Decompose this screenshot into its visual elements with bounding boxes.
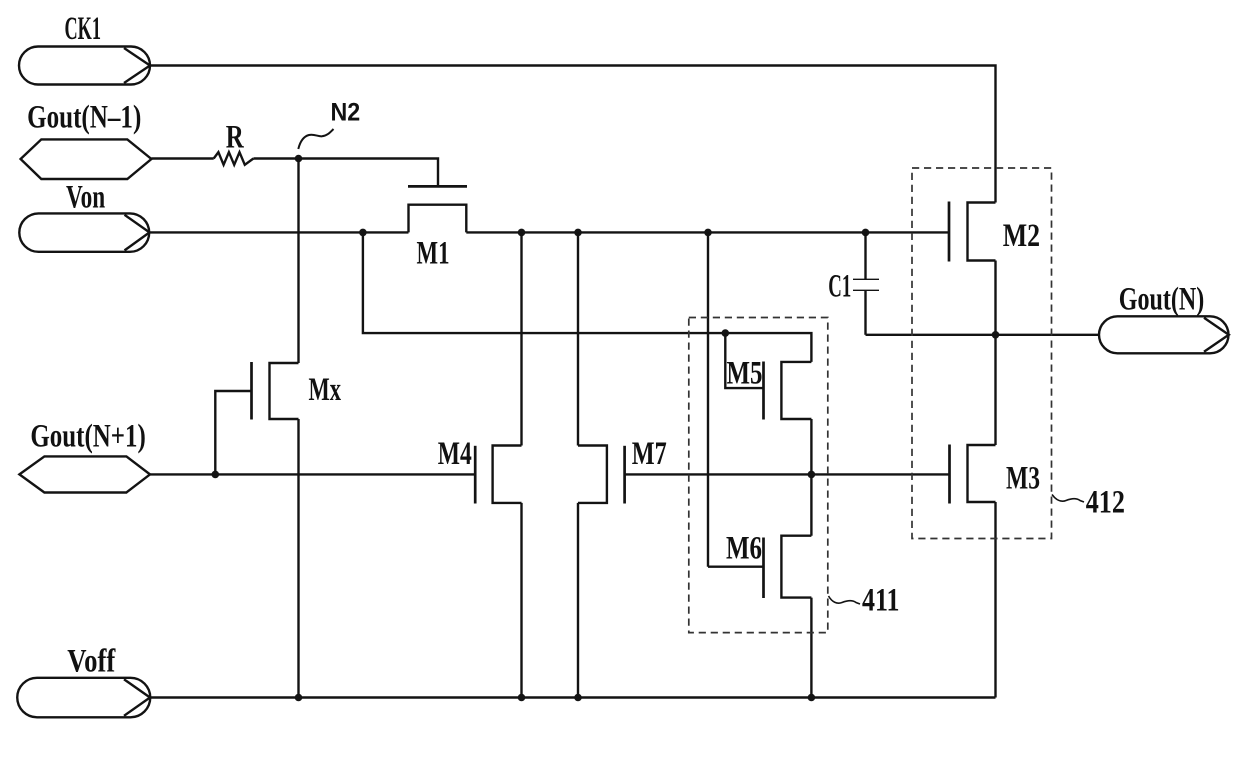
node Voff-M7 bbox=[574, 694, 582, 702]
terminal Gout(N) bbox=[1099, 316, 1229, 353]
wire Von line right bbox=[466, 231, 949, 233]
transistor M7 gate bar bbox=[623, 446, 626, 504]
transistor M3 gate bar bbox=[948, 445, 951, 504]
svg-text:M6: M6 bbox=[726, 531, 762, 567]
terminal Voff bbox=[17, 678, 150, 718]
svg-text:M4: M4 bbox=[438, 436, 472, 472]
wire M7 gate to M3 gate bbox=[625, 473, 950, 475]
terminal Von bbox=[19, 213, 149, 251]
terminal Gout(N+1) bbox=[19, 456, 150, 492]
svg-text:Gout(N): Gout(N) bbox=[1119, 282, 1205, 318]
svg-text:Gout(N–1): Gout(N–1) bbox=[27, 100, 141, 136]
node N2 bbox=[295, 155, 303, 163]
node Voff-N2 bbox=[295, 694, 303, 702]
wire M7 column upper bbox=[577, 232, 579, 445]
svg-text:Mx: Mx bbox=[309, 372, 342, 408]
wire M2 to Gout node bbox=[994, 261, 996, 446]
node Von-M4 bbox=[518, 229, 526, 237]
transistor M2 channel bbox=[968, 203, 996, 261]
node Voff-M4 bbox=[518, 694, 526, 702]
wire N2 column lower bbox=[297, 419, 299, 698]
transistor M4 channel bbox=[493, 446, 522, 503]
svg-text:Gout(N+1): Gout(N+1) bbox=[30, 419, 145, 455]
wire M3 to Voff bbox=[994, 502, 996, 698]
terminal CK1 bbox=[19, 47, 150, 85]
svg-text:C1: C1 bbox=[828, 269, 851, 305]
wire 708 column bbox=[707, 232, 709, 566]
wire M4 column lower bbox=[520, 503, 522, 698]
svg-text:M1: M1 bbox=[417, 236, 450, 272]
wire C1 to Gout(N) bbox=[866, 334, 1099, 336]
svg-text:M2: M2 bbox=[1003, 218, 1040, 254]
node Von-708 bbox=[704, 229, 712, 237]
svg-text:N2: N2 bbox=[331, 99, 361, 127]
node Von-M7 bbox=[574, 229, 582, 237]
node Von-drop bbox=[359, 229, 367, 237]
wire Gout(N+1) to M4 gate bbox=[150, 473, 475, 475]
node Mx gate junction bbox=[212, 471, 220, 479]
transistor M6 gate bar bbox=[762, 538, 765, 599]
node M5 gate junction bbox=[722, 329, 730, 337]
dashed box 412 bbox=[912, 168, 1052, 539]
leader 412 bbox=[1052, 495, 1084, 503]
terminal Gout(N-1) bbox=[21, 139, 152, 179]
transistor Mx channel bbox=[270, 363, 299, 419]
transistor M7 channel bbox=[578, 446, 607, 503]
wire Voff line bbox=[150, 696, 996, 698]
wire M5-M6 column bbox=[810, 419, 812, 536]
wire M7 column lower bbox=[577, 503, 579, 698]
resistor R bbox=[214, 152, 254, 165]
node Voff-M6 bbox=[808, 694, 816, 702]
transistor M1 gate bar bbox=[408, 185, 467, 188]
svg-text:411: 411 bbox=[862, 583, 900, 619]
capacitor C1 bbox=[853, 232, 879, 334]
transistor M3 channel bbox=[968, 445, 996, 502]
node M5M6-gate bbox=[808, 471, 816, 479]
wire Gout(N-1) to resistor bbox=[151, 157, 213, 159]
transistor M5 gate lead bbox=[725, 333, 763, 388]
transistor M6 gate lead bbox=[708, 566, 764, 568]
wire M6 to Voff bbox=[810, 598, 812, 698]
wire M4 column upper bbox=[520, 232, 522, 445]
transistor Mx gate lead bbox=[215, 391, 251, 474]
dashed box 411 bbox=[689, 318, 828, 633]
node Gout bbox=[992, 331, 1000, 339]
transistor M6 channel bbox=[781, 536, 811, 598]
leader 411 bbox=[829, 596, 861, 604]
transistor M5 gate bar bbox=[762, 362, 765, 420]
svg-text:R: R bbox=[226, 120, 245, 156]
wire N2 column upper bbox=[297, 159, 299, 364]
transistor M5 channel bbox=[781, 362, 811, 419]
transistor M2 gate bar bbox=[948, 202, 951, 262]
leader N2 bbox=[298, 129, 333, 149]
svg-text:M7: M7 bbox=[632, 436, 667, 472]
node Von-C1 bbox=[862, 229, 870, 237]
svg-text:M5: M5 bbox=[727, 356, 763, 392]
svg-text:CK1: CK1 bbox=[65, 11, 102, 47]
wire CK1 to M2 drain bbox=[150, 66, 996, 203]
svg-text:Voff: Voff bbox=[67, 644, 116, 680]
svg-text:M3: M3 bbox=[1006, 461, 1040, 497]
transistor M1 channel bbox=[409, 205, 467, 233]
transistor Mx gate bar bbox=[250, 362, 253, 420]
wire inner drop to M5 bbox=[363, 232, 812, 362]
svg-text:412: 412 bbox=[1086, 485, 1125, 521]
wire Von line left bbox=[150, 231, 409, 233]
transistor M4 gate bar bbox=[474, 446, 477, 504]
svg-text:Von: Von bbox=[66, 180, 105, 216]
wire resistor to M1 gate bbox=[253, 159, 438, 186]
